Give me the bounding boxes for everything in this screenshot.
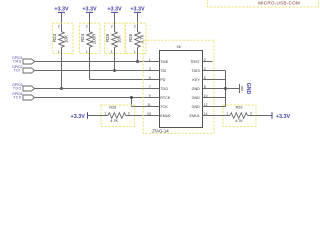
svg-text:+3.3V: +3.3V: [82, 7, 97, 13]
resistor R29 4.7K: [203, 115, 231, 117]
svg-text:R25: R25: [105, 33, 110, 42]
svg-text:R24: R24: [80, 33, 85, 42]
resistor R25 10K: [114, 24, 116, 32]
svg-text:7: 7: [149, 85, 151, 89]
svg-text:9: 9: [149, 94, 151, 98]
svg-text:1: 1: [134, 50, 136, 54]
svg-text:5: 5: [149, 76, 151, 80]
svg-text:PD: PD: [160, 78, 165, 82]
svg-text:+3.3V: +3.3V: [71, 114, 86, 120]
svg-text:TDI: TDI: [14, 68, 21, 72]
svg-text:JTAG-14: JTAG-14: [152, 128, 170, 133]
module box around R23: [53, 23, 73, 53]
wire connector to pin 1: [35, 61, 151, 63]
pin 13 EMU0: [151, 115, 160, 117]
module box around R26: [126, 23, 146, 53]
junction R26/TMS: [136, 60, 139, 63]
svg-text:+3.3V: +3.3V: [54, 7, 69, 13]
module box MICRO-USB-COM (cut off at top): [208, 0, 319, 7]
pin 1 TMS: [151, 61, 160, 63]
module box around R24: [80, 23, 101, 53]
wire connector to pin 3: [35, 70, 151, 72]
svg-text:TCK: TCK: [13, 95, 22, 99]
module box around R28: [101, 105, 135, 127]
svg-text:TMS: TMS: [160, 60, 168, 64]
pin 6 KEY: [203, 79, 213, 81]
svg-text:TDIS: TDIS: [191, 69, 200, 73]
svg-text:MICRO-USB-COM: MICRO-USB-COM: [258, 1, 300, 6]
svg-text:10K: 10K: [117, 35, 122, 43]
pin 14 EMU1: [203, 115, 213, 117]
svg-text:+3.3V: +3.3V: [276, 114, 291, 120]
svg-text:TMS: TMS: [13, 59, 22, 63]
pin 3 TDI: [151, 70, 160, 72]
svg-text:3: 3: [149, 67, 151, 71]
svg-text:GND: GND: [192, 87, 201, 91]
wire R25 to TDI net: [114, 54, 116, 71]
wire pin 12 to GND bus: [203, 106, 226, 108]
pin 8 GND: [203, 88, 213, 90]
wire connector to pin 7: [35, 88, 151, 90]
wire R26 to TMS net: [137, 54, 139, 62]
svg-text:R29: R29: [236, 105, 243, 109]
svg-text:1: 1: [226, 112, 228, 116]
wire R24 elbow to pin 5: [90, 79, 151, 81]
pin 12 GND: [203, 106, 213, 108]
pin 7 TDO: [151, 88, 160, 90]
svg-text:1: 1: [149, 58, 151, 62]
svg-text:1: 1: [86, 50, 88, 54]
svg-text:R23: R23: [52, 33, 57, 42]
svg-text:+3.3V: +3.3V: [130, 7, 145, 13]
wire pin 10 to GND bus: [203, 97, 226, 99]
resistor R24 100R: [89, 24, 91, 32]
svg-text:RTCK: RTCK: [160, 96, 171, 100]
resistor R23 10K: [61, 24, 63, 32]
svg-text:X6: X6: [177, 45, 181, 49]
junction R23/TDO: [60, 87, 63, 90]
pin 2 TRST: [203, 61, 213, 63]
svg-text:11: 11: [147, 103, 151, 107]
pin 10 GND: [203, 97, 213, 99]
svg-text:2: 2: [250, 112, 252, 116]
module box around R29: [223, 105, 256, 127]
svg-text:TDO: TDO: [13, 86, 22, 90]
svg-text:EMU1: EMU1: [190, 114, 200, 118]
module box around R25: [105, 23, 126, 53]
pin 9 RTCK: [151, 97, 160, 99]
svg-text:1: 1: [104, 112, 106, 116]
svg-text:TRST: TRST: [190, 60, 200, 64]
pin 11 TCK: [151, 106, 160, 108]
resistor R28 4.7K: [88, 115, 109, 117]
ground flag GND: [226, 88, 240, 90]
svg-text:2: 2: [111, 24, 113, 28]
junction GND bus: [224, 87, 227, 90]
svg-text:R28: R28: [109, 105, 116, 109]
power flag +3.3V at R29: [271, 112, 273, 118]
wire pin 8 to GND bus: [203, 88, 226, 90]
svg-text:GND: GND: [245, 83, 251, 95]
svg-text:TDI: TDI: [160, 69, 166, 73]
svg-text:2: 2: [204, 58, 206, 62]
svg-text:2: 2: [86, 24, 88, 28]
svg-text:13: 13: [147, 112, 151, 116]
GND bus vertical: [225, 71, 227, 107]
svg-text:+3.3V: +3.3V: [107, 7, 122, 13]
connector X6 body (JTAG-14): [160, 51, 203, 128]
wire pin 6 to GND bus: [203, 79, 226, 81]
junction R25/TDI: [113, 69, 116, 72]
resistor R26 4.7K: [137, 24, 139, 32]
wire connector to pin 9: [35, 97, 151, 99]
wire RTCK to TCK tie: [131, 98, 133, 107]
junction tie/RTCK: [130, 96, 133, 99]
svg-text:100R: 100R: [92, 34, 97, 45]
module box JTAG: [143, 40, 214, 133]
pin 4 TDIS: [203, 70, 213, 72]
svg-text:2: 2: [58, 24, 60, 28]
wire R23 to TDO net: [61, 54, 63, 89]
svg-text:2: 2: [134, 24, 136, 28]
svg-text:GND: GND: [192, 105, 201, 109]
svg-text:R26: R26: [128, 33, 133, 42]
svg-text:EMU0: EMU0: [160, 114, 170, 118]
svg-text:4.7K: 4.7K: [140, 34, 145, 43]
wire R24 down to PD: [89, 54, 91, 80]
svg-text:GND: GND: [192, 96, 201, 100]
svg-text:1: 1: [111, 50, 113, 54]
svg-text:4.7K: 4.7K: [235, 119, 243, 123]
svg-text:1: 1: [58, 50, 60, 54]
svg-text:TCK: TCK: [160, 105, 168, 109]
wire pin 4 to GND bus: [203, 70, 226, 72]
svg-text:2: 2: [128, 112, 130, 116]
svg-text:10K: 10K: [64, 35, 69, 43]
svg-text:TDO: TDO: [160, 87, 168, 91]
svg-text:4.7K: 4.7K: [110, 119, 118, 123]
svg-text:KEY: KEY: [192, 78, 200, 82]
pin 5 PD: [151, 79, 160, 81]
